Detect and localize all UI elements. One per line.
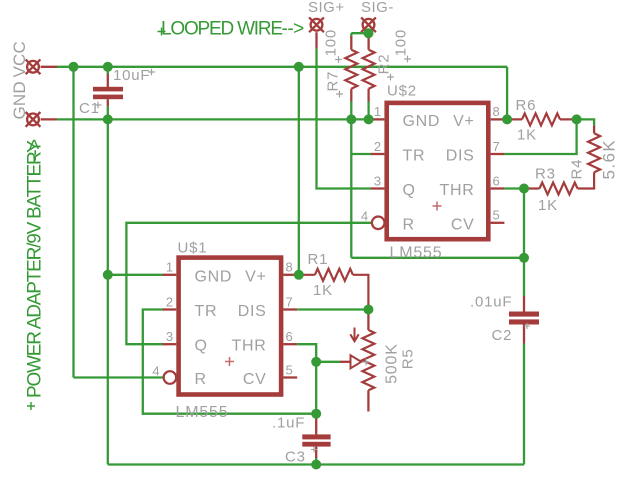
svg-text:TR: TR xyxy=(403,148,426,165)
svg-text:R1: R1 xyxy=(308,251,329,268)
junction U1 V+/R1 xyxy=(294,270,304,280)
svg-text:1K: 1K xyxy=(538,197,558,214)
wire VCC to C1 xyxy=(107,67,109,74)
op-amp U1 body (LM555 box) xyxy=(179,258,282,395)
pad GND xyxy=(26,112,41,127)
pin of GND pad xyxy=(41,118,57,120)
pin C1 top xyxy=(107,74,109,87)
svg-text:SIG-: SIG- xyxy=(361,0,394,16)
wire U1 THR down xyxy=(297,344,316,417)
wire U2 TR vertical xyxy=(350,119,352,257)
svg-text:1: 1 xyxy=(166,260,173,275)
junction C3/bottom rail xyxy=(311,460,321,470)
resistor R7 zigzag xyxy=(345,50,357,89)
svg-text:100: 100 xyxy=(323,29,340,56)
wire U1 THR branch to wiper xyxy=(316,361,340,363)
svg-text:LM555: LM555 xyxy=(176,404,229,421)
pin 4 inversion bubble U2 xyxy=(372,217,385,230)
svg-text:Q: Q xyxy=(195,338,208,355)
origin cross R2 value xyxy=(404,56,411,63)
pin R4 top xyxy=(593,125,595,133)
wire U1 TR down to THR tie xyxy=(143,310,316,414)
op-amp U2 body (LM555 box) xyxy=(387,103,489,239)
wire C2 to bottom rail xyxy=(523,344,525,465)
svg-text:R6: R6 xyxy=(516,97,537,114)
origin cross C2 xyxy=(524,323,530,329)
svg-text:R4: R4 xyxy=(569,159,586,180)
wire THR tie horizontal xyxy=(351,257,524,259)
wire bottom GND rail xyxy=(108,463,524,465)
junction U1 GND pin xyxy=(103,270,113,280)
wire GND down left xyxy=(107,119,109,464)
svg-text:VCC: VCC xyxy=(10,41,29,78)
svg-text:LOOPED WIRE: LOOPED WIRE xyxy=(161,19,282,40)
resistor R6 zigzag xyxy=(507,113,576,125)
pin C3 bottom xyxy=(315,447,317,458)
pin of SIG- pad xyxy=(367,32,369,36)
wire C3 to bottom rail xyxy=(315,458,317,465)
junction GND/R7 xyxy=(346,114,356,124)
svg-text:.1uF: .1uF xyxy=(272,415,305,432)
svg-text:10uF: 10uF xyxy=(113,67,150,84)
wire to U1 pin R xyxy=(74,376,164,378)
wire VCC rail drop to U2 pin8 xyxy=(506,67,508,120)
svg-text:5.6K: 5.6K xyxy=(600,139,619,180)
pin 8 stub U1 xyxy=(283,274,297,276)
pin R7 top xyxy=(350,36,352,50)
svg-text:3: 3 xyxy=(166,329,173,344)
origin cross R2 name xyxy=(387,74,394,81)
svg-text:4: 4 xyxy=(152,363,159,378)
wire C1 to GND rail xyxy=(107,106,109,119)
origin cross near 10uF xyxy=(148,69,155,76)
pad SIG- xyxy=(361,17,376,32)
capacitor C2 plates xyxy=(509,312,539,325)
pad VCC xyxy=(26,59,41,74)
origin cross R7 name xyxy=(336,91,343,98)
junction R6/R4/DIS xyxy=(572,114,582,124)
svg-text:C1: C1 xyxy=(79,100,100,117)
pin R4 bottom to R3 xyxy=(578,172,595,188)
pin 6 stub U1 xyxy=(283,343,297,345)
resistor R4 zigzag xyxy=(588,133,600,172)
svg-text:C3: C3 xyxy=(285,449,306,466)
junction VCC/R1 feed xyxy=(294,62,304,72)
resistor R2 zigzag xyxy=(363,50,375,89)
svg-text:THR: THR xyxy=(440,182,475,199)
junction U1 DIS/R1/R5 xyxy=(363,305,373,315)
svg-text:CV: CV xyxy=(243,371,267,388)
svg-text:CV: CV xyxy=(451,216,475,233)
svg-text:100: 100 xyxy=(393,29,410,56)
origin cross R5 xyxy=(363,359,370,366)
wire VCC branch down left xyxy=(72,67,74,378)
pin 4 inversion bubble U1 xyxy=(164,371,177,384)
pin C3 top xyxy=(315,417,317,434)
pad SIG+ xyxy=(309,17,324,32)
pin R2 bottom xyxy=(367,89,369,102)
potentiometer R5 adjust arrow xyxy=(350,328,358,342)
wire U1 pin1 GND xyxy=(108,274,163,276)
svg-text:2: 2 xyxy=(374,139,381,154)
svg-text:R5: R5 xyxy=(400,349,417,370)
origin cross of left annotation xyxy=(27,402,35,410)
pin R2 top xyxy=(367,34,369,50)
svg-text:U$1: U$1 xyxy=(178,240,208,257)
svg-text:4: 4 xyxy=(361,209,368,224)
svg-text:R7: R7 xyxy=(325,71,342,92)
wire VCC rail xyxy=(57,66,507,68)
svg-text:.01uF: .01uF xyxy=(470,293,512,310)
svg-text:1K: 1K xyxy=(517,127,537,144)
resistor R3 zigzag xyxy=(524,183,578,195)
junction GND/R2 xyxy=(364,114,374,124)
pin R5 wiper xyxy=(340,361,351,363)
svg-text:V+: V+ xyxy=(245,268,266,285)
junction VCC/left branch xyxy=(69,62,79,72)
svg-text:POWER ADAPTER/9V BATTERY: POWER ADAPTER/9V BATTERY xyxy=(25,140,46,398)
pin 3 stub U2 xyxy=(371,187,385,189)
pin 2 stub U1 xyxy=(163,308,177,310)
svg-text:DIS: DIS xyxy=(446,148,475,165)
origin cross C3 xyxy=(311,447,317,453)
pin C2 bottom xyxy=(523,325,525,344)
origin cross U1 xyxy=(225,357,234,366)
wire U2 pin R to U1 Q xyxy=(126,223,372,344)
wire U2 THR to R3 node xyxy=(504,187,524,189)
capacitor C1 plates xyxy=(93,87,123,99)
pin 1 stub U2 xyxy=(371,118,385,120)
svg-text:8: 8 xyxy=(286,260,293,275)
pin R5 bottom xyxy=(367,390,369,411)
pin 1 stub U1 xyxy=(163,274,177,276)
wire GND rail xyxy=(57,118,371,120)
svg-text:TR: TR xyxy=(195,303,218,320)
svg-text:GND: GND xyxy=(403,113,441,130)
svg-text:R: R xyxy=(403,216,415,233)
svg-text:7: 7 xyxy=(493,139,500,154)
svg-text:GND: GND xyxy=(10,81,29,119)
svg-text:6: 6 xyxy=(493,173,500,188)
origin cross U2 xyxy=(433,202,442,211)
origin cross R7 value xyxy=(335,56,342,63)
wire U1 DIS to R1 xyxy=(297,308,368,310)
potentiometer R5 zigzag xyxy=(362,330,374,390)
wire to C2 xyxy=(523,258,525,296)
junction THR/wiper xyxy=(311,357,321,367)
potentiometer R5 wiper triangle xyxy=(351,355,362,368)
pin R5 top xyxy=(367,310,369,331)
svg-text:5: 5 xyxy=(493,208,500,223)
svg-text:1K: 1K xyxy=(313,282,333,299)
wire SIG- to R7 top xyxy=(351,32,368,34)
svg-text:1: 1 xyxy=(374,104,381,119)
svg-text:R: R xyxy=(195,371,207,388)
pin 6 stub U2 xyxy=(491,187,505,189)
svg-text:U$2: U$2 xyxy=(387,83,417,100)
svg-text:-->: --> xyxy=(282,19,305,40)
junction VCC/C1 xyxy=(103,62,113,72)
svg-text:500K: 500K xyxy=(384,343,401,384)
svg-text:SIG+: SIG+ xyxy=(308,0,345,16)
pin of SIG+ pad xyxy=(315,32,317,49)
wire SIG+ to U2 Q xyxy=(317,49,372,189)
pin 7 stub U2 xyxy=(491,153,505,155)
svg-text:7: 7 xyxy=(286,294,293,309)
origin cross near C1 xyxy=(95,102,102,109)
junction U2 V+/R6 xyxy=(502,114,512,124)
svg-text:R2: R2 xyxy=(376,54,393,75)
pin C2 top xyxy=(523,296,525,312)
svg-text:2: 2 xyxy=(166,294,173,309)
pin 7 stub U1 xyxy=(283,308,297,310)
svg-text:R3: R3 xyxy=(535,166,556,183)
pin C1 bottom xyxy=(107,99,109,106)
svg-text:V+: V+ xyxy=(453,113,474,130)
pin R7 bottom xyxy=(350,89,352,102)
svg-text:DIS: DIS xyxy=(238,303,267,320)
svg-text:3: 3 xyxy=(374,173,381,188)
wire branch to U2 TR pin xyxy=(351,153,371,155)
svg-text:C2: C2 xyxy=(492,327,513,344)
wire U2 DIS to R6 node xyxy=(504,119,576,154)
capacitor C3 plates xyxy=(302,434,330,446)
svg-text:-->: --> xyxy=(25,139,46,162)
pin 8 stub U2 xyxy=(491,118,505,120)
junction U2 THR/R3 xyxy=(519,184,529,194)
svg-text:Q: Q xyxy=(403,182,416,199)
svg-text:5: 5 xyxy=(286,362,293,377)
wire R6 node to R4 top xyxy=(577,119,595,125)
resistor R1 zigzag xyxy=(299,269,368,310)
pin 3 stub U1 xyxy=(163,343,177,345)
svg-text:8: 8 xyxy=(493,104,500,119)
svg-text:6: 6 xyxy=(286,329,293,344)
junction SIG-/R2 xyxy=(364,28,374,38)
junction THR tie/C2 xyxy=(519,253,529,263)
svg-text:GND: GND xyxy=(195,268,233,285)
origin cross of top annotation xyxy=(158,28,166,36)
pin of VCC pad xyxy=(41,66,57,68)
junction GND/C1 xyxy=(103,114,113,124)
svg-text:LM555: LM555 xyxy=(390,245,443,262)
wire R3 node down xyxy=(523,189,525,258)
pin 5 stub U2 xyxy=(491,222,505,224)
junction TR tie/C3 xyxy=(311,409,321,419)
wire R2 bottom to GND rail xyxy=(367,102,369,120)
wire R7 bottom to GND rail xyxy=(350,102,352,120)
wire VCC to R1 node xyxy=(298,67,300,275)
wire R7 top drop xyxy=(350,33,352,36)
pin 2 stub U2 xyxy=(371,153,385,155)
pin 5 stub U1 xyxy=(283,376,297,378)
svg-text:THR: THR xyxy=(232,338,267,355)
